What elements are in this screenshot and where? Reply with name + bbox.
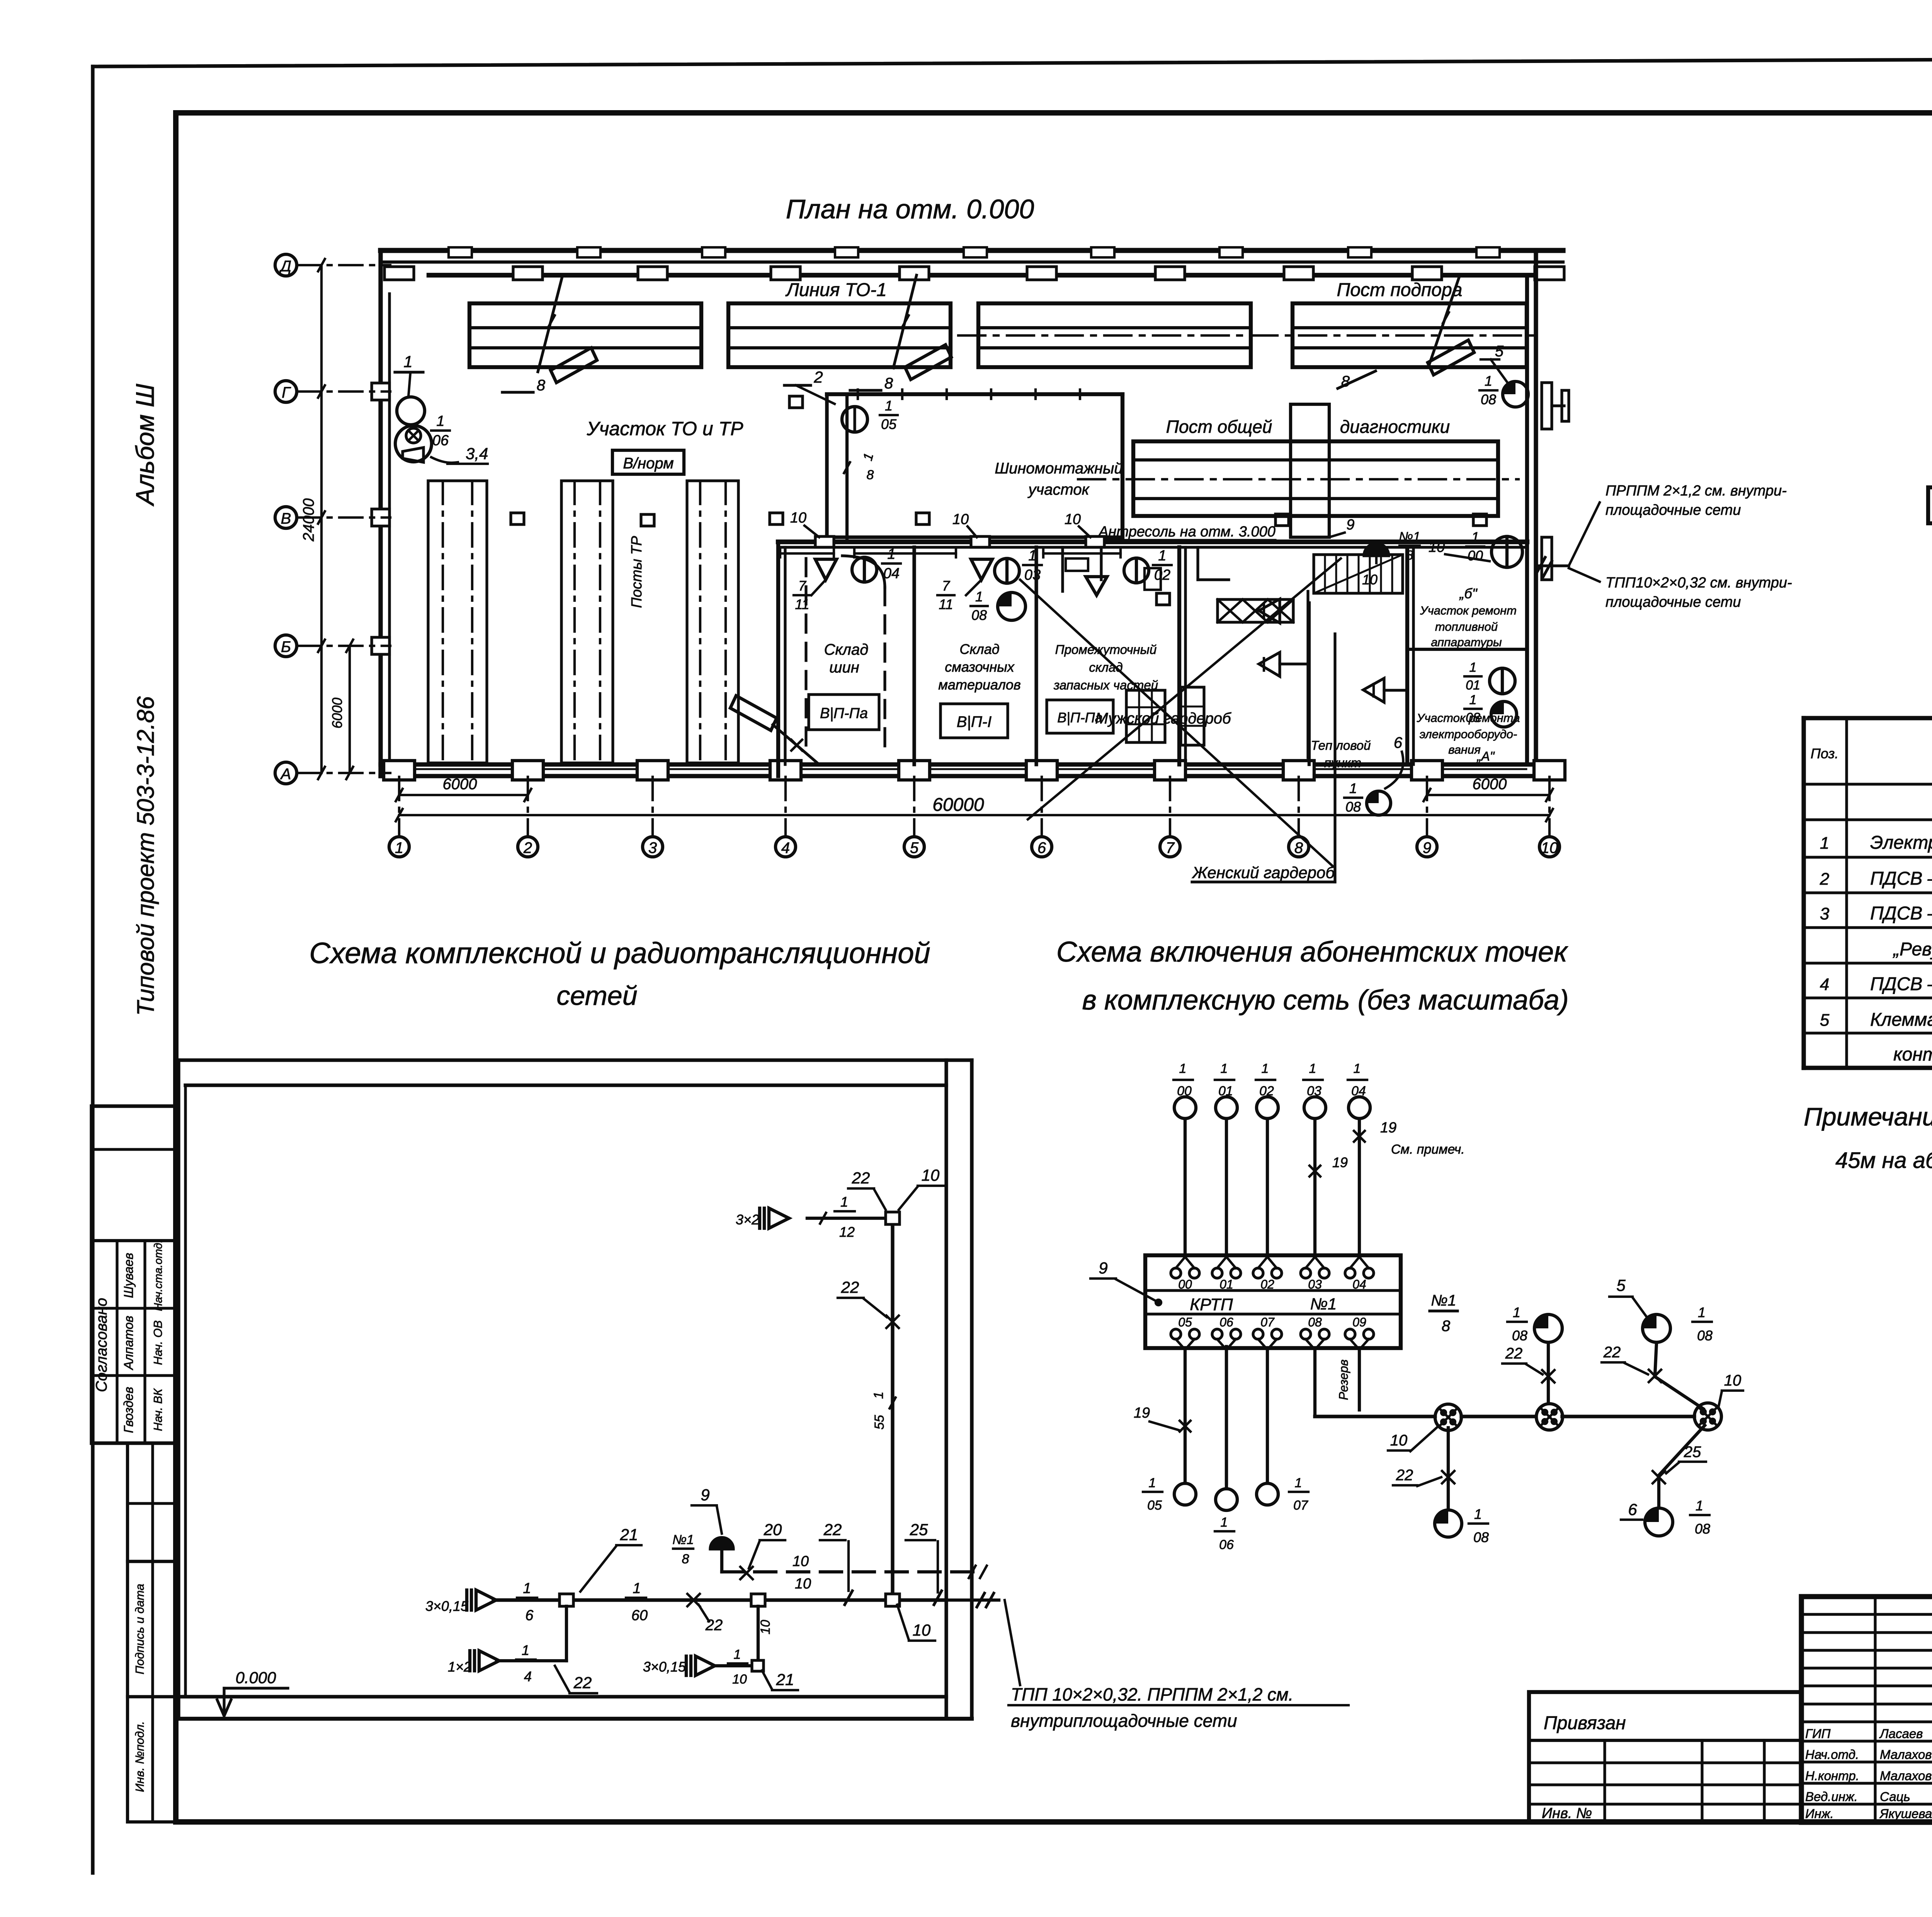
- svg-text:1: 1: [1513, 1304, 1520, 1320]
- svg-text:04: 04: [1352, 1277, 1366, 1291]
- svg-text:03: 03: [1308, 1277, 1322, 1291]
- svg-text:4: 4: [1820, 975, 1829, 994]
- svg-text:3×2: 3×2: [736, 1212, 759, 1227]
- svg-text:01: 01: [1466, 678, 1480, 693]
- svg-text:7: 7: [798, 578, 807, 594]
- svg-text:1: 1: [840, 1194, 848, 1210]
- drop wire a: [565, 1606, 568, 1661]
- svg-text:08: 08: [1345, 799, 1361, 815]
- storeroom3 socket 1-02: [1124, 558, 1149, 583]
- svg-text:60: 60: [631, 1607, 648, 1624]
- inventory stamp: [128, 1697, 176, 1822]
- svg-text:2: 2: [813, 368, 823, 386]
- wall top band: [381, 248, 1563, 253]
- svg-text:1: 1: [1474, 1506, 1482, 1522]
- svg-text:Схема включения абонентских: Схема включения абонентских точек: [1056, 936, 1569, 968]
- wall right: [1525, 275, 1529, 764]
- svg-text:10: 10: [758, 1620, 773, 1634]
- reserve wire 08: [1313, 1350, 1316, 1416]
- binding box: [1529, 1692, 1801, 1822]
- svg-text:План на отм. 0.000: План на отм. 0.000: [786, 194, 1034, 224]
- svg-text:Г: Г: [282, 384, 291, 401]
- svg-text:5: 5: [910, 839, 919, 856]
- svg-text:21: 21: [620, 1525, 638, 1544]
- svg-text:10: 10: [1362, 572, 1378, 587]
- mezzanine tyre room: [827, 392, 1122, 396]
- svg-text:ПДСВ — сигнальная лампа: ПДСВ — сигнальная лампа: [1870, 974, 1932, 994]
- junction box top: [886, 1212, 900, 1224]
- svg-text:08: 08: [1473, 1529, 1489, 1545]
- svg-text:08: 08: [1481, 392, 1496, 407]
- svg-text:вания: вания: [1448, 743, 1481, 756]
- svg-text:площадочные сети: площадочные сети: [1605, 594, 1741, 610]
- svg-text:1: 1: [1179, 1061, 1187, 1076]
- svg-text:Нач.ста.отд.: Нач.ста.отд.: [152, 1240, 165, 1311]
- svg-text:08: 08: [1308, 1315, 1322, 1329]
- KRTP terminals top: [1171, 1268, 1181, 1278]
- mark 19 wire05: [1180, 1421, 1190, 1432]
- abonent wires up: [1184, 1119, 1187, 1257]
- svg-text:9: 9: [1423, 839, 1431, 856]
- reserve wire 09: [1358, 1350, 1361, 1410]
- svg-text:Шиномонтажный: Шиномонтажный: [995, 460, 1122, 477]
- axis circles left: [275, 254, 297, 276]
- dim 6000 left vertical: [349, 646, 351, 773]
- svg-text:Электророзетка — ПДСВ: Электророзетка — ПДСВ: [1870, 833, 1932, 853]
- svg-text:Участок ремонт: Участок ремонт: [1420, 604, 1517, 617]
- svg-text:22: 22: [573, 1674, 592, 1692]
- axis row circles bottom: [389, 837, 409, 857]
- tyre room riser 2: [845, 394, 849, 542]
- svg-text:6: 6: [1628, 1500, 1637, 1519]
- svg-text:05: 05: [881, 416, 897, 432]
- svg-text:04: 04: [1351, 1084, 1366, 1098]
- wire exit right: [946, 1599, 999, 1602]
- section speaker 3x015b: [686, 1656, 715, 1675]
- svg-text:В: В: [281, 510, 291, 527]
- svg-text:10: 10: [1724, 1372, 1742, 1389]
- svg-text:8: 8: [537, 377, 546, 394]
- svg-text:1: 1: [1262, 1061, 1269, 1076]
- section speaker 3x2: [760, 1208, 789, 1228]
- horn 8d: [730, 696, 777, 730]
- svg-text:Саць: Саць: [1880, 1789, 1910, 1804]
- svg-text:Инж.: Инж.: [1805, 1806, 1834, 1821]
- svg-text:08: 08: [971, 607, 987, 623]
- dim 6000 bottom left: [399, 794, 528, 796]
- svg-text:См. примеч.: См. примеч.: [1391, 1142, 1465, 1157]
- net entry corner: [1537, 557, 1545, 573]
- svg-text:1: 1: [1221, 1061, 1228, 1076]
- dim 6000 bottom right: [1427, 794, 1549, 796]
- mark 19 wire03: [1310, 1166, 1320, 1176]
- svg-text:в комплексную сеть (без ма: в комплексную сеть (без масштаба): [1082, 985, 1568, 1016]
- svg-text:Ласаев: Ласаев: [1879, 1726, 1923, 1741]
- svg-text:Нач. ВК: Нач. ВК: [151, 1388, 165, 1431]
- storeroom2 speaker 7-11: [971, 559, 992, 580]
- svg-text:05: 05: [1178, 1315, 1192, 1329]
- svg-text:участок: участок: [1027, 481, 1090, 498]
- diagnostics centreline: [1078, 478, 1519, 480]
- approval stamp: [92, 1106, 176, 1443]
- diagnostics pit: [1133, 441, 1498, 516]
- svg-text:06: 06: [1219, 1315, 1233, 1329]
- svg-text:шин: шин: [829, 659, 859, 676]
- svg-text:04: 04: [883, 565, 900, 582]
- diagnostics lift: [1291, 404, 1329, 537]
- svg-text:1: 1: [1820, 834, 1829, 853]
- svg-text:20: 20: [764, 1520, 782, 1539]
- svg-text:сетей: сетей: [556, 981, 637, 1011]
- svg-text:Инв. №подл.: Инв. №подл.: [133, 1721, 146, 1792]
- svg-text:1: 1: [1469, 693, 1477, 707]
- svg-text:19: 19: [1332, 1154, 1348, 1170]
- distribution box B: [1536, 1404, 1563, 1430]
- storeroom1 speaker 7-11: [815, 559, 837, 580]
- svg-text:ТПП10×2×0,32 см. внутри-: ТПП10×2×0,32 см. внутри-: [1605, 575, 1792, 591]
- dim 60000 bottom: [399, 814, 1549, 816]
- svg-text:диагностики: диагностики: [1340, 417, 1450, 437]
- svg-text:02: 02: [1259, 1084, 1274, 1098]
- svg-text:Якушева: Якушева: [1879, 1806, 1932, 1821]
- dim 24000: [320, 265, 323, 773]
- svg-text:6: 6: [1394, 734, 1403, 751]
- svg-text:03: 03: [1024, 567, 1041, 583]
- svg-text:аппаратуры: аппаратуры: [1431, 635, 1502, 649]
- svg-text:6000: 6000: [329, 698, 345, 729]
- junction on mezz wall 1: [815, 536, 834, 547]
- drop wire b: [757, 1606, 760, 1661]
- svg-text:Склад: Склад: [959, 641, 999, 657]
- service pit 1: [469, 303, 701, 367]
- svg-text:площадочные сети: площадочные сети: [1605, 502, 1741, 518]
- svg-text:10: 10: [913, 1621, 931, 1639]
- svg-text:4: 4: [524, 1668, 532, 1684]
- svg-text:Вед.инж.: Вед.инж.: [1805, 1789, 1858, 1804]
- svg-text:0.000: 0.000: [235, 1668, 276, 1687]
- building section outline: [179, 1058, 972, 1062]
- svg-text:08: 08: [1697, 1328, 1713, 1343]
- distribution box A: [1435, 1404, 1461, 1430]
- clock C: [1643, 1314, 1670, 1342]
- svg-text:00: 00: [1177, 1084, 1192, 1098]
- KRTP box: [1145, 1255, 1401, 1348]
- svg-text:22: 22: [841, 1278, 859, 1296]
- storeroom1 socket 1-04: [852, 557, 877, 582]
- section speaker 1x2: [470, 1651, 499, 1671]
- distribution box C: [1694, 1403, 1721, 1430]
- bell No1-8 plan: [1364, 543, 1389, 556]
- svg-text:03: 03: [1307, 1084, 1321, 1098]
- svg-text:6: 6: [525, 1607, 534, 1624]
- svg-text:Примечание. Расход провода: Примечание. Расход провода ТРП 2×0.4 при…: [1804, 1102, 1932, 1131]
- svg-text:10: 10: [732, 1672, 747, 1687]
- stairs: [1314, 555, 1403, 593]
- lamp fixture 1-06: [397, 397, 425, 425]
- svg-text:08: 08: [1466, 710, 1480, 725]
- svg-text:ТПП 10×2×0,32. ПРППМ 2×1,2 с: ТПП 10×2×0,32. ПРППМ 2×1,2 см.: [1011, 1684, 1293, 1704]
- svg-text:10: 10: [790, 510, 806, 526]
- svg-text:3,4: 3,4: [466, 444, 488, 463]
- svg-text:8: 8: [867, 468, 874, 482]
- junction box a: [560, 1594, 573, 1606]
- svg-text:1: 1: [1471, 529, 1479, 545]
- storeroom2 socket 1-03: [995, 558, 1019, 583]
- storeroom class BP-IIa: [809, 695, 879, 730]
- posts TR bay 1: [428, 481, 487, 763]
- service pit 4: [1293, 303, 1527, 367]
- svg-text:В|П-I: В|П-I: [957, 713, 992, 730]
- svg-text:11: 11: [939, 596, 953, 612]
- junction box right: [886, 1594, 900, 1606]
- svg-text:КРТП: КРТП: [1190, 1295, 1233, 1314]
- wire A down: [1447, 1428, 1450, 1507]
- junction on mezz wall 2: [971, 536, 990, 547]
- svg-text:4: 4: [781, 839, 790, 856]
- svg-text:В/норм: В/норм: [623, 455, 673, 472]
- svg-text:1: 1: [1349, 780, 1357, 796]
- storeroom3 speaker: [1086, 577, 1107, 595]
- svg-text:8: 8: [884, 375, 893, 392]
- abonent circles top: [1174, 1097, 1196, 1119]
- svg-text:Пост подпора: Пост подпора: [1337, 280, 1463, 300]
- svg-text:1: 1: [633, 1580, 641, 1597]
- svg-text:10: 10: [1390, 1432, 1408, 1449]
- svg-text:25: 25: [910, 1520, 928, 1539]
- svg-text:№1: №1: [1399, 529, 1420, 544]
- svg-text:01: 01: [1218, 1084, 1233, 1098]
- electro speaker: [1363, 678, 1384, 702]
- section main wire: [493, 1598, 946, 1602]
- svg-text:1: 1: [1309, 1061, 1316, 1076]
- posts TR bay 3: [687, 481, 738, 763]
- svg-text:22: 22: [823, 1520, 842, 1539]
- svg-text:7: 7: [1166, 839, 1175, 856]
- svg-text:8: 8: [682, 1552, 689, 1566]
- wall left: [378, 250, 383, 776]
- svg-text:02: 02: [1154, 567, 1170, 583]
- svg-text:Согласовано: Согласовано: [93, 1298, 110, 1392]
- svg-text:ПДСВ — аппарат телефонный: ПДСВ — аппарат телефонный: [1870, 868, 1932, 889]
- svg-text:1: 1: [436, 413, 444, 429]
- abonent circles bottom: [1174, 1483, 1196, 1505]
- svg-text:Склад: Склад: [824, 641, 869, 658]
- svg-text:Пост общей: Пост общей: [1166, 417, 1272, 437]
- svg-text:6000: 6000: [1473, 776, 1507, 793]
- svg-text:материалов: материалов: [938, 677, 1021, 693]
- wall storeroom partitions: [776, 542, 780, 776]
- service pit 2: [728, 303, 951, 367]
- svg-text:1: 1: [734, 1647, 741, 1662]
- junction box c: [752, 1660, 764, 1671]
- svg-text:Н.контр.: Н.контр.: [1805, 1769, 1859, 1783]
- svg-text:электрооборудо-: электрооборудо-: [1420, 727, 1517, 741]
- svg-text:6: 6: [1037, 839, 1046, 856]
- svg-text:07: 07: [1293, 1498, 1308, 1513]
- svg-text:00: 00: [1178, 1277, 1192, 1291]
- svg-text:7: 7: [942, 578, 951, 594]
- svg-text:1: 1: [1158, 548, 1166, 564]
- svg-text:Участок ТО и ТР: Участок ТО и ТР: [587, 418, 744, 439]
- wire A-B: [1461, 1415, 1536, 1418]
- svg-text:05: 05: [1147, 1498, 1162, 1513]
- bell line dashed: [722, 1570, 981, 1573]
- horn 8a: [538, 275, 563, 372]
- svg-text:1: 1: [1149, 1476, 1156, 1490]
- svg-text:1: 1: [1485, 373, 1492, 389]
- svg-text:2: 2: [523, 839, 532, 856]
- drawing frame: [176, 110, 1932, 116]
- svg-text:10: 10: [922, 1166, 940, 1184]
- title block left grid: [1874, 1597, 1876, 1822]
- svg-text:10: 10: [1429, 539, 1445, 555]
- wire C up: [1655, 1343, 1656, 1375]
- svg-text:Поз.: Поз.: [1811, 746, 1838, 761]
- revun unit: [1928, 487, 1932, 523]
- svg-text:24000: 24000: [300, 498, 317, 541]
- svg-text:склад: склад: [1089, 660, 1122, 674]
- svg-text:Схема комплексной и радиотр: Схема комплексной и радиотрансляционной: [309, 937, 930, 970]
- svg-text:22: 22: [1396, 1467, 1413, 1484]
- cable table grid: [1804, 716, 1932, 720]
- wall mezzanine: [778, 540, 1527, 544]
- svg-text:ПРППМ 2×1,2 см. внутри-: ПРППМ 2×1,2 см. внутри-: [1605, 483, 1787, 499]
- svg-text:6000: 6000: [443, 776, 477, 793]
- small partitions cloakroom: [1061, 547, 1064, 591]
- svg-text:Инв. №: Инв. №: [1542, 1805, 1592, 1822]
- svg-text:3: 3: [648, 839, 657, 856]
- svg-text:45м на абонентскую точку: 45м на абонентскую точку комплексной сет…: [1835, 1148, 1932, 1173]
- svg-text:2: 2: [1820, 870, 1829, 889]
- title block frame: [1801, 1597, 1932, 1822]
- svg-text:1: 1: [1698, 1304, 1706, 1320]
- svg-text:топливной: топливной: [1435, 620, 1498, 633]
- clock fixture 5: [1503, 381, 1528, 407]
- svg-text:1: 1: [1295, 1476, 1302, 1490]
- cloakroom bench: [1181, 687, 1204, 745]
- svg-text:3×0,15: 3×0,15: [643, 1659, 686, 1675]
- siren fixture 3-4: [395, 426, 432, 462]
- svg-text:1: 1: [1696, 1498, 1703, 1514]
- svg-text:19: 19: [1134, 1405, 1150, 1421]
- svg-text:Теп ловой: Теп ловой: [1311, 738, 1371, 752]
- svg-text:08: 08: [1512, 1328, 1527, 1343]
- heat point riser: [1306, 591, 1309, 758]
- svg-text:1: 1: [1221, 1515, 1228, 1530]
- svg-text:1: 1: [887, 546, 895, 562]
- svg-text:10: 10: [795, 1576, 811, 1592]
- wire B up: [1547, 1343, 1550, 1403]
- svg-text:А: А: [280, 766, 291, 783]
- svg-text:внутриплощадочные сети: внутриплощадочные сети: [1011, 1711, 1237, 1731]
- svg-text:Привязан: Привязан: [1544, 1713, 1626, 1733]
- svg-text:01: 01: [1219, 1277, 1233, 1291]
- svg-text:1: 1: [1354, 1061, 1361, 1076]
- svg-text:Шуваев: Шуваев: [121, 1253, 136, 1298]
- cloakroom speaker a: [1259, 599, 1280, 623]
- svg-text:Нач.отд.: Нач.отд.: [1805, 1747, 1859, 1762]
- svg-text:3: 3: [1820, 904, 1830, 923]
- svg-text:№1: №1: [1310, 1295, 1337, 1313]
- svg-text:№1: №1: [1431, 1292, 1456, 1309]
- riser wire long: [891, 1218, 894, 1600]
- svg-text:Нач. ОВ: Нач. ОВ: [151, 1320, 165, 1365]
- svg-text:9: 9: [1099, 1259, 1107, 1277]
- wire B-C: [1562, 1415, 1694, 1418]
- svg-text:1: 1: [871, 1392, 886, 1399]
- svg-text:Клемма „З" — заземляющий: Клемма „З" — заземляющий: [1870, 1010, 1932, 1030]
- svg-text:„Ревун": „Ревун": [1893, 939, 1932, 960]
- svg-text:5: 5: [1616, 1276, 1626, 1294]
- svg-text:1: 1: [1469, 660, 1477, 675]
- svg-text:60000: 60000: [932, 795, 984, 815]
- svg-text:смазочных: смазочных: [945, 659, 1015, 675]
- svg-text:06: 06: [432, 432, 449, 449]
- svg-text:1: 1: [1028, 548, 1036, 564]
- fuel room clock 1-08: [1491, 701, 1517, 727]
- svg-text:22: 22: [852, 1169, 870, 1187]
- svg-text:1: 1: [885, 398, 893, 414]
- svg-text:Антресоль на отм. 3.000: Антресоль на отм. 3.000: [1098, 524, 1276, 540]
- cross storage rack: [1218, 599, 1293, 622]
- junction on mezz wall 3: [1086, 536, 1104, 547]
- fuel room socket 1-01: [1490, 668, 1515, 694]
- abonent wires down: [1184, 1350, 1187, 1483]
- cloakroom window: [1126, 690, 1165, 742]
- svg-text:контакт электророзетки: контакт электророзетки: [1893, 1044, 1932, 1065]
- svg-text:1: 1: [403, 352, 412, 371]
- svg-text:22: 22: [1505, 1345, 1523, 1362]
- svg-text:пункт: пункт: [1324, 756, 1361, 770]
- junction box b: [751, 1594, 765, 1606]
- svg-text:„А": „А": [1476, 749, 1495, 763]
- svg-text:В|П-Па: В|П-Па: [820, 705, 868, 722]
- svg-text:Алпатов: Алпатов: [121, 1316, 136, 1371]
- junction boxes on axis B: [511, 513, 524, 524]
- clock D: [1645, 1508, 1673, 1536]
- svg-text:Подпись и дата: Подпись и дата: [133, 1584, 146, 1675]
- bell symbol: [710, 1537, 733, 1549]
- sheet outer border: [91, 66, 94, 1873]
- svg-text:55: 55: [872, 1415, 887, 1430]
- svg-text:06: 06: [1219, 1537, 1234, 1552]
- svg-text:Посты ТР: Посты ТР: [629, 536, 645, 608]
- svg-text:Б: Б: [281, 638, 291, 655]
- storeroom class BP-I: [940, 704, 1008, 738]
- svg-text:№1: №1: [672, 1532, 694, 1547]
- svg-text:10: 10: [952, 511, 969, 528]
- svg-text:25: 25: [1684, 1444, 1701, 1461]
- svg-text:1: 1: [522, 1642, 529, 1658]
- svg-text:9: 9: [701, 1486, 709, 1504]
- svg-text:Промежуточный: Промежуточный: [1055, 642, 1157, 657]
- svg-text:1: 1: [861, 451, 877, 462]
- svg-text:8: 8: [1406, 548, 1413, 563]
- mark 19 wire04: [1354, 1131, 1365, 1142]
- clock B: [1534, 1314, 1562, 1342]
- svg-text:19: 19: [1380, 1120, 1396, 1136]
- posts TR bay 2: [561, 481, 613, 763]
- svg-text:22: 22: [1603, 1344, 1621, 1361]
- svg-text:5: 5: [1495, 343, 1504, 360]
- svg-text:8: 8: [1294, 839, 1303, 856]
- svg-text:3×0,15: 3×0,15: [425, 1598, 469, 1614]
- svg-text:10: 10: [793, 1553, 809, 1570]
- wall bottom: [381, 762, 1536, 766]
- svg-text:1: 1: [523, 1580, 531, 1597]
- svg-text:Женский гардероб: Женский гардероб: [1192, 863, 1335, 882]
- svg-text:12: 12: [839, 1224, 855, 1240]
